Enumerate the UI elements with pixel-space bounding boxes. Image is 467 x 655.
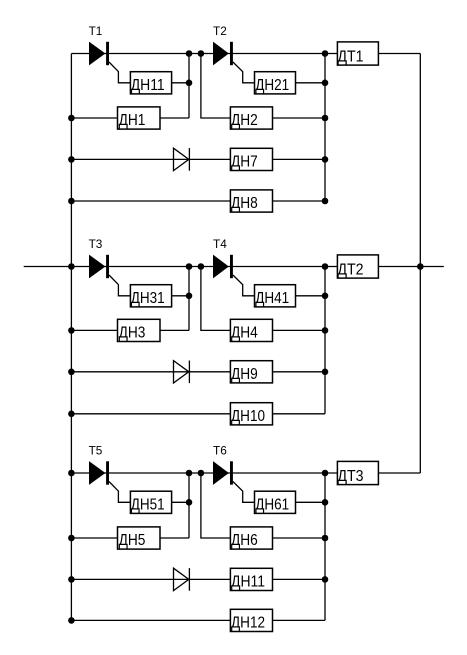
svg-text:ДН1: ДН1 bbox=[119, 112, 146, 129]
block ДН2 bbox=[230, 107, 272, 129]
svg-text:Т6: Т6 bbox=[213, 443, 227, 457]
svg-text:ДН61: ДН61 bbox=[255, 497, 289, 514]
wire: gate of Т5 bbox=[109, 482, 130, 503]
block ДТ3 bbox=[337, 461, 378, 485]
junction: main wire / inner bus (block 2) bbox=[322, 263, 329, 270]
svg-text:ДН51: ДН51 bbox=[131, 497, 165, 514]
svg-text:ДН2: ДН2 bbox=[231, 112, 258, 129]
svg-text:Т4: Т4 bbox=[213, 237, 227, 251]
svg-text:ДН12: ДН12 bbox=[231, 615, 265, 632]
wire: inner right bus (block 1) bbox=[324, 54, 326, 202]
wire: gate of Т6 bbox=[233, 482, 255, 503]
junction: inner bus / ДН21 output bbox=[322, 80, 329, 87]
svg-text:ДН9: ДН9 bbox=[231, 366, 258, 383]
junction: left bus / row4 (block 1) bbox=[68, 198, 75, 205]
junction: inner bus / row3 (block 1) bbox=[322, 156, 329, 163]
wire: main horizontal (block 3) bbox=[71, 472, 337, 474]
block ДН51 bbox=[130, 491, 171, 513]
junction: main wire / inner bus (block 3) bbox=[322, 470, 329, 477]
junction: left bus / row3 (block 2) bbox=[68, 369, 75, 376]
wire: left bus to ДН10 bbox=[71, 413, 230, 415]
junction: inner bus / ДН41 output bbox=[322, 293, 329, 300]
wire: inner right bus (block 3) bbox=[324, 473, 326, 620]
wire: ДН12 output to inner bus bbox=[273, 619, 326, 621]
block ДН41 bbox=[255, 285, 296, 307]
junction: inner bus / row3 (block 3) bbox=[322, 576, 329, 583]
svg-text:Т5: Т5 bbox=[89, 443, 103, 457]
junction: left bus / row3 (block 3) bbox=[68, 576, 75, 583]
wire: ДН10 output to inner bus bbox=[273, 413, 326, 415]
wire: ДН3 output to vertical 1 bbox=[160, 329, 189, 331]
wire: ДН5 output to vertical 1 bbox=[160, 537, 189, 539]
junction: inner bus / row2 (block 3) bbox=[322, 535, 329, 542]
wire: gate of Т1 bbox=[109, 62, 130, 83]
svg-text:ДТ3: ДТ3 bbox=[337, 468, 363, 485]
wire: ДН1 output to vertical 1 bbox=[160, 117, 189, 119]
wire: right output stub (node B) bbox=[420, 266, 444, 268]
junction: inner bus / row4 (block 1) bbox=[322, 198, 329, 205]
svg-text:ДН8: ДН8 bbox=[231, 195, 258, 212]
svg-text:Т2: Т2 bbox=[213, 24, 227, 38]
svg-text:ДН6: ДН6 bbox=[231, 532, 258, 549]
wire: left bus to ДН8 bbox=[71, 200, 230, 202]
svg-text:ДН5: ДН5 bbox=[119, 532, 146, 549]
junction: left bus / main wire (block 3) bbox=[68, 470, 75, 477]
diode (row3, block 1) bbox=[174, 148, 190, 171]
svg-text:Т1: Т1 bbox=[89, 24, 103, 38]
block ДН61 bbox=[255, 491, 296, 513]
wire: ДТ3 output to outer bus bbox=[378, 472, 420, 474]
junction: left bus / row2 (block 3) bbox=[68, 535, 75, 542]
wire: ДН41 output bbox=[296, 295, 326, 297]
wire: right outer vertical bus bbox=[419, 54, 421, 474]
thyristor Т1 bbox=[89, 42, 109, 66]
wire: ДН4 output to inner bus bbox=[273, 329, 326, 331]
junction: main wire / vertical 2 (block 1) bbox=[198, 50, 205, 57]
wire: gate of Т2 bbox=[233, 62, 255, 83]
block ДН5 bbox=[118, 527, 161, 549]
junction: inner bus / row3 (block 2) bbox=[322, 369, 329, 376]
junction: left bus / main wire (block 2) bbox=[68, 263, 75, 270]
block ДТ2 bbox=[337, 255, 378, 279]
svg-text:ДТ2: ДТ2 bbox=[337, 262, 363, 279]
junction: inner bus / row2 (block 2) bbox=[322, 327, 329, 334]
junction: left bus / row4 (block 2) bbox=[68, 411, 75, 418]
wire: ДН21 output bbox=[296, 82, 326, 84]
wire: ДН8 output to inner bus bbox=[273, 200, 326, 202]
wire: gate of Т4 bbox=[233, 275, 255, 296]
wire: ДН7 output to inner bus bbox=[273, 158, 326, 160]
block ДН10 bbox=[230, 403, 272, 425]
wire: vertical from main to row2 (x=189, block 1) bbox=[188, 54, 190, 119]
junction: left bus / row4 (block 3) bbox=[68, 617, 75, 624]
svg-text:ДН41: ДН41 bbox=[255, 290, 289, 307]
junction: main wire / vertical 1 (block 2) bbox=[186, 263, 193, 270]
block ДН6 bbox=[230, 527, 272, 549]
svg-text:ДН4: ДН4 bbox=[231, 325, 258, 342]
wire: ДН11 output bbox=[172, 82, 189, 84]
junction: inner bus / ДН61 output bbox=[322, 499, 329, 506]
wire: ДН2 output to inner bus bbox=[273, 117, 326, 119]
wire: ДН31 output bbox=[172, 295, 189, 297]
junction: vertical 1 / ДН51 output bbox=[186, 499, 193, 506]
svg-text:ДН10: ДН10 bbox=[231, 408, 265, 425]
junction: vertical 1 / ДН11 output bbox=[186, 80, 193, 87]
junction: outer bus / output stub bbox=[417, 263, 424, 270]
wire: left bus to ДН7 (through diode) bbox=[71, 158, 230, 160]
block ДН7 bbox=[230, 148, 272, 170]
svg-text:ДН31: ДН31 bbox=[131, 290, 165, 307]
wire: vertical from main to row2 (x=189, block 3) bbox=[188, 473, 190, 538]
wire: vertical then to ДН6 left (block 3) bbox=[201, 473, 231, 538]
svg-text:ДТ1: ДТ1 bbox=[337, 49, 363, 66]
wire: ДТ2 output to outer bus bbox=[378, 266, 420, 268]
svg-text:Т3: Т3 bbox=[89, 237, 103, 251]
svg-text:ДН11: ДН11 bbox=[131, 77, 165, 94]
wire: left bus to ДН12 bbox=[71, 619, 230, 621]
block ДН31 bbox=[130, 285, 171, 307]
block ДН3 bbox=[118, 319, 161, 341]
wire: main horizontal (block 1) bbox=[71, 53, 337, 55]
wire: left bus to ДН9 (through diode) bbox=[71, 371, 230, 373]
wire: left bus to ДН1 bbox=[71, 117, 117, 119]
svg-text:ДН3: ДН3 bbox=[119, 325, 146, 342]
svg-text:ДН11: ДН11 bbox=[231, 574, 265, 591]
wire: left vertical bus bbox=[70, 54, 72, 621]
junction: main wire / vertical 2 (block 2) bbox=[198, 263, 205, 270]
junction: left bus / row2 (block 1) bbox=[68, 115, 75, 122]
wire: left bus to ДН11 (through diode) bbox=[71, 578, 230, 580]
thyristor Т3 bbox=[89, 255, 109, 279]
block ДН11 bbox=[130, 72, 171, 94]
thyristor Т6 bbox=[213, 461, 233, 485]
junction: left bus / row2 (block 2) bbox=[68, 327, 75, 334]
wire: vertical from main to row2 (x=189, block 2) bbox=[188, 267, 190, 331]
block ДН12 bbox=[230, 609, 272, 631]
wire: left bus to ДН5 bbox=[71, 537, 117, 539]
wire: vertical then to ДН4 left (block 2) bbox=[201, 267, 231, 331]
diode (row3, block 2) bbox=[174, 361, 190, 384]
diode (row3, block 3) bbox=[174, 568, 190, 591]
wire: inner right bus (block 2) bbox=[324, 267, 326, 414]
block ДН9 bbox=[230, 361, 272, 383]
wire: gate of Т3 bbox=[109, 275, 130, 296]
wire: main horizontal (block 2) bbox=[71, 266, 337, 268]
junction: main wire / inner bus (block 1) bbox=[322, 50, 329, 57]
thyristor Т4 bbox=[213, 255, 233, 279]
junction: inner bus / row2 (block 1) bbox=[322, 115, 329, 122]
block ДН11 bbox=[230, 568, 272, 590]
junction: main wire / vertical 1 (block 1) bbox=[186, 50, 193, 57]
wire: ДН11 output to inner bus bbox=[273, 578, 326, 580]
block ДТ1 bbox=[337, 42, 378, 66]
block ДН1 bbox=[118, 107, 161, 129]
block ДН21 bbox=[255, 72, 296, 94]
block ДН8 bbox=[230, 190, 272, 212]
junction: main wire / vertical 1 (block 3) bbox=[186, 470, 193, 477]
svg-text:ДН7: ДН7 bbox=[231, 154, 258, 171]
wire: ДН51 output bbox=[172, 501, 189, 503]
svg-text:ДН21: ДН21 bbox=[255, 77, 289, 94]
junction: vertical 1 / ДН31 output bbox=[186, 293, 193, 300]
wire: ДН6 output to inner bus bbox=[273, 537, 326, 539]
wire: left input stub (node A) bbox=[24, 266, 72, 268]
wire: vertical then to ДН2 left (block 1) bbox=[201, 54, 231, 119]
wire: ДН9 output to inner bus bbox=[273, 371, 326, 373]
thyristor Т5 bbox=[89, 461, 109, 485]
thyristor Т2 bbox=[213, 42, 233, 66]
junction: left bus / row3 (block 1) bbox=[68, 156, 75, 163]
wire: left bus to ДН3 bbox=[71, 329, 117, 331]
wire: ДН61 output bbox=[296, 501, 326, 503]
block ДН4 bbox=[230, 319, 272, 341]
junction: main wire / vertical 2 (block 3) bbox=[198, 470, 205, 477]
wire: ДТ1 output to outer bus bbox=[378, 53, 420, 55]
